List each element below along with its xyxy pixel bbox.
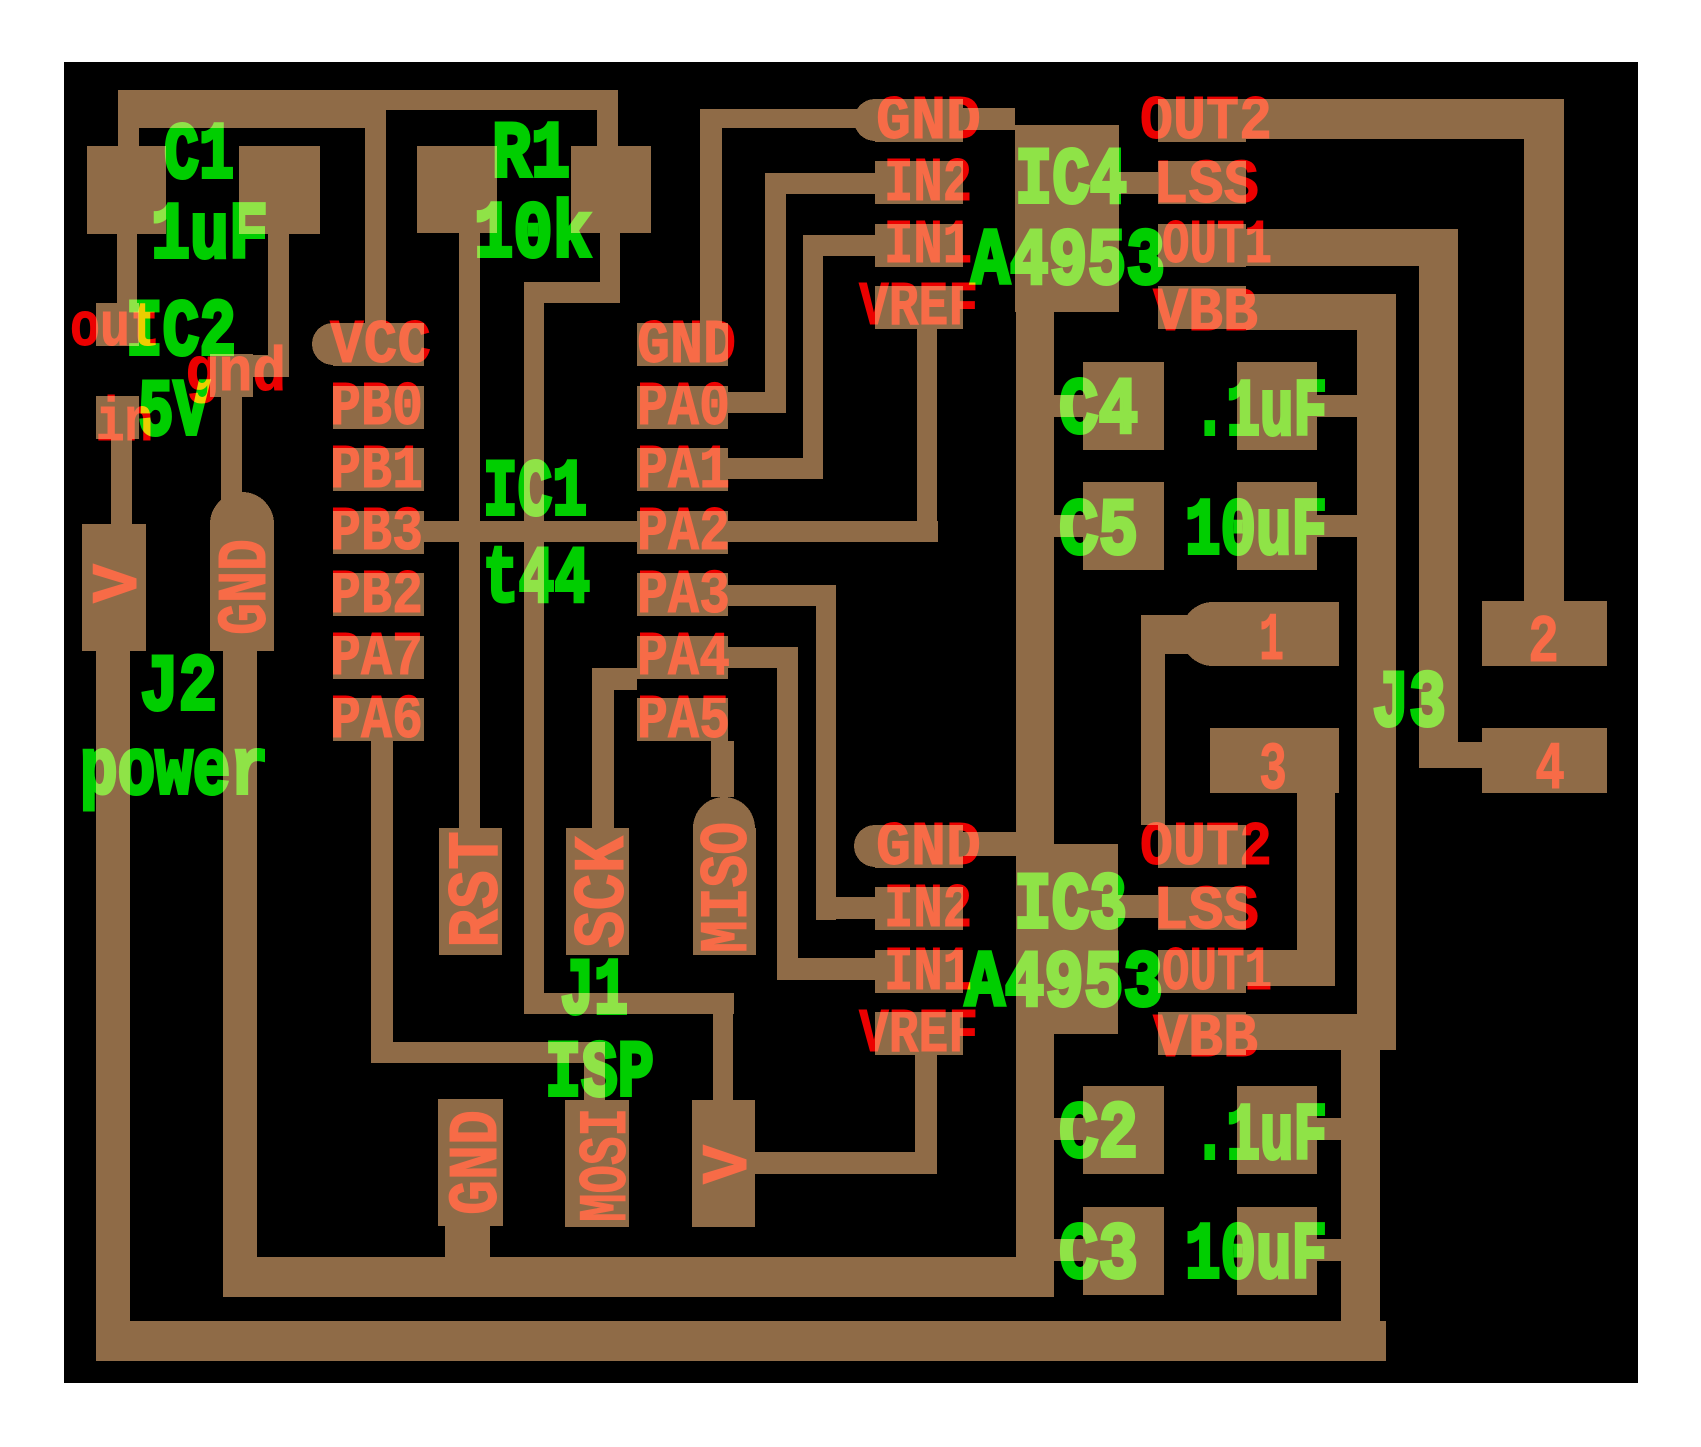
wire SCK vertical bbox=[592, 668, 614, 828]
IC4 pad OUT2 bbox=[1158, 99, 1246, 142]
svg-text:PA3: PA3 bbox=[637, 560, 730, 631]
wire C3 connector left bbox=[1053, 1239, 1083, 1261]
svg-text:C3: C3 bbox=[1059, 1211, 1138, 1302]
svg-text:VBB: VBB bbox=[1153, 1004, 1258, 1075]
wire IN1-PA1 vertical bbox=[803, 235, 823, 479]
IC4 pad OUT1 bbox=[1158, 224, 1246, 267]
regulator IC2 pad gnd bbox=[210, 354, 253, 397]
wire PA6 vertical bbox=[371, 741, 393, 1063]
IC1 pad PB3 bbox=[333, 511, 424, 554]
svg-text:IC1: IC1 bbox=[483, 448, 587, 539]
svg-text:VCC: VCC bbox=[330, 310, 431, 381]
wire R1 pad2 elbow vertical bbox=[600, 233, 620, 303]
resistor R1 pad 1 bbox=[417, 146, 497, 233]
svg-text:J1: J1 bbox=[560, 947, 628, 1038]
wire IC4 GND connector bbox=[963, 108, 1015, 130]
svg-text:R1: R1 bbox=[492, 110, 570, 201]
wire J2 V strip bbox=[96, 651, 130, 1361]
svg-text:OUT1: OUT1 bbox=[1162, 937, 1272, 1008]
wire IC4 IN2 horizontal bbox=[786, 173, 875, 194]
wire VCC drop to IC1 VCC pin bbox=[365, 128, 386, 323]
svg-text:VREF: VREF bbox=[859, 272, 978, 343]
wire IC4 OUT2 horizontal bbox=[1200, 99, 1564, 139]
svg-text:J2: J2 bbox=[140, 643, 217, 734]
IC3 pad VREF bbox=[875, 1012, 963, 1055]
wire C3 connector right bbox=[1317, 1239, 1341, 1261]
connector J3 pad 3 bbox=[1210, 728, 1339, 793]
wire C2 connector right bbox=[1317, 1118, 1341, 1140]
svg-text:C1: C1 bbox=[164, 111, 234, 202]
IC1 pad PB0 bbox=[333, 386, 424, 429]
svg-text:A4953: A4953 bbox=[971, 217, 1165, 308]
svg-text:MISO: MISO bbox=[690, 822, 767, 953]
wire R1 pad1 to PB3 to RST bbox=[459, 233, 480, 828]
IC1 pad GND bbox=[637, 323, 728, 366]
svg-text:VBB: VBB bbox=[1153, 278, 1258, 349]
svg-text:GND: GND bbox=[637, 310, 736, 381]
svg-text:OUT1: OUT1 bbox=[1162, 210, 1272, 281]
svg-text:PA6: PA6 bbox=[330, 685, 423, 756]
wire VCC drop to R1 pad2 bbox=[597, 110, 618, 146]
capacitor C5 pad 2 bbox=[1237, 482, 1317, 570]
wire J1 V to VREF horizontal bbox=[755, 1152, 937, 1174]
wire IC3 VREF vertical bbox=[915, 1055, 937, 1174]
svg-text:PA2: PA2 bbox=[637, 497, 730, 568]
IC1 pad PB1 bbox=[333, 448, 424, 491]
capacitor C4 pad 1 bbox=[1083, 362, 1164, 450]
IC1 pad PA2 bbox=[637, 511, 728, 554]
wire MOSI feed bbox=[584, 1042, 605, 1100]
svg-text:PA5: PA5 bbox=[637, 685, 730, 756]
IC3 pad GND round end (pin 1) bbox=[854, 825, 896, 867]
svg-text:PA0: PA0 bbox=[637, 372, 730, 443]
connector J2 pad GND bbox=[210, 524, 274, 651]
svg-text:J3: J3 bbox=[1372, 659, 1446, 750]
regulator IC2 pad in bbox=[96, 396, 139, 439]
IC1 pad PA5 bbox=[637, 698, 728, 741]
wire C1 pad2 elbow to IC2 gnd bbox=[230, 355, 289, 377]
svg-text:PB1: PB1 bbox=[330, 435, 423, 506]
svg-text:IN2: IN2 bbox=[884, 874, 972, 945]
wire IC3 IN2 horizontal bbox=[816, 897, 875, 919]
connector J3 pad 1 round end bbox=[1181, 602, 1245, 666]
IC3 pad IN2 bbox=[875, 887, 963, 930]
capacitor C5 pad 1 bbox=[1083, 482, 1164, 570]
connector J1 pad MISO round top bbox=[693, 797, 755, 859]
wire drop to J1 V pad bbox=[713, 993, 733, 1100]
wire VCC long vertical bbox=[524, 282, 544, 1014]
wire VCC to J1 V horizontal bbox=[524, 993, 734, 1014]
svg-text:PB2: PB2 bbox=[330, 560, 423, 631]
regulator IC2 pad out bbox=[96, 303, 139, 346]
wire C1 pad1 to IC2 out bbox=[117, 234, 137, 303]
wire IC4 VBB horizontal bbox=[1246, 294, 1396, 330]
wire VBB bottom border bbox=[96, 1321, 1386, 1361]
connector J1 pad SCK bbox=[566, 828, 629, 955]
svg-text:ISP: ISP bbox=[545, 1029, 654, 1120]
wire OUT1 to J3 pad4 vertical bbox=[1419, 229, 1458, 768]
connector J1 pad RST bbox=[439, 828, 502, 955]
wire PA1 horizontal bbox=[725, 458, 823, 479]
IC3 pad OUT1 bbox=[1158, 950, 1246, 993]
wire PB3-PA2-VREF horizontal bbox=[421, 521, 938, 542]
svg-text:3: 3 bbox=[1259, 732, 1287, 809]
svg-text:MOSI: MOSI bbox=[569, 1108, 646, 1222]
wire IC3 VBB horizontal bbox=[1246, 1014, 1396, 1050]
svg-text:PB3: PB3 bbox=[330, 497, 423, 568]
connector J2 pad GND round top bbox=[210, 492, 274, 556]
wire VCC top border horizontal bbox=[118, 90, 618, 110]
wire IC2 in to J2 V pad bbox=[111, 439, 132, 524]
svg-text:A4953: A4953 bbox=[965, 939, 1163, 1030]
svg-text:IC4: IC4 bbox=[1015, 136, 1127, 227]
wire PA4 horizontal right bbox=[725, 647, 798, 668]
svg-text:.1uF: .1uF bbox=[1193, 1092, 1327, 1183]
svg-text:1uF: 1uF bbox=[151, 191, 268, 282]
capacitor C4 pad 2 bbox=[1237, 362, 1317, 450]
IC1 pad PB2 bbox=[333, 573, 424, 616]
connector J1 pad MOSI bbox=[565, 1100, 629, 1227]
wire PA5 to MISO bbox=[711, 741, 734, 797]
svg-text:IN2: IN2 bbox=[884, 148, 972, 219]
svg-text:IC2: IC2 bbox=[126, 288, 236, 379]
svg-text:C5: C5 bbox=[1059, 487, 1138, 578]
IC1 pad VCC bbox=[333, 323, 424, 366]
svg-text:1: 1 bbox=[1259, 603, 1284, 680]
wire J1 GND stub bbox=[445, 1226, 490, 1257]
wire C4 connector left bbox=[1053, 395, 1083, 417]
IC3 pad IN1 bbox=[875, 950, 963, 993]
svg-text:C2: C2 bbox=[1059, 1090, 1138, 1181]
IC3 pad VBB bbox=[1158, 1012, 1246, 1055]
wire IC4 LSS connector bbox=[1119, 172, 1158, 194]
IC1 pad PA6 bbox=[333, 698, 424, 741]
connector J2 pad V bbox=[82, 524, 146, 651]
svg-text:C4: C4 bbox=[1059, 366, 1138, 457]
capacitor C1 pad 1 bbox=[87, 146, 166, 234]
resistor R1 pad 2 bbox=[571, 146, 651, 233]
IC1 pad PA0 bbox=[637, 386, 728, 429]
wire IC2 gnd to J2 GND pad bbox=[221, 397, 242, 505]
wire PA3 horizontal bbox=[725, 585, 836, 606]
svg-text:PA4: PA4 bbox=[637, 622, 730, 693]
svg-text:SCK: SCK bbox=[563, 835, 645, 948]
connector J3 pad 4 bbox=[1482, 728, 1607, 793]
wire GND middle strip bbox=[1016, 312, 1054, 1297]
svg-text:GND: GND bbox=[876, 86, 981, 157]
IC1 pad PA7 bbox=[333, 636, 424, 679]
svg-text:GND: GND bbox=[439, 1110, 518, 1215]
wire J3 pad1 feed bbox=[1141, 615, 1221, 654]
capacitor C1 pad 2 bbox=[239, 146, 320, 234]
IC4 pad LSS bbox=[1158, 161, 1246, 204]
svg-text:IN1: IN1 bbox=[884, 210, 972, 281]
connector J1 pad GND bbox=[438, 1099, 503, 1226]
svg-text:5V: 5V bbox=[138, 368, 209, 459]
wire IC3 GND connector bbox=[963, 832, 1016, 856]
svg-text:V: V bbox=[82, 564, 156, 603]
wire J3 pad4 elbow bbox=[1419, 742, 1482, 768]
IC4 pad VREF bbox=[875, 286, 963, 329]
IC3 pad OUT2 bbox=[1158, 825, 1246, 868]
wire IC4 VREF vertical bbox=[917, 326, 937, 542]
wire C1 pad2 down bbox=[268, 234, 289, 377]
svg-text:4: 4 bbox=[1535, 732, 1565, 809]
wire J3 pad1 to IC3 OUT2 vertical bbox=[1141, 615, 1165, 825]
wire IC3 IN1 horizontal bbox=[777, 958, 875, 980]
wire J2 GND strip bbox=[223, 651, 257, 1297]
IC1 pad PA3 bbox=[637, 573, 728, 616]
wire IC4 OUT1 horizontal bbox=[1200, 229, 1458, 266]
svg-text:10k: 10k bbox=[474, 190, 592, 281]
svg-text:t44: t44 bbox=[483, 535, 590, 626]
wire C2 connector left bbox=[1053, 1118, 1083, 1140]
svg-text:GND: GND bbox=[876, 812, 981, 883]
wire R1 pad2 elbow horizontal bbox=[524, 282, 620, 303]
wire PA3 to IC3 IN2 vertical bbox=[816, 585, 836, 920]
connector J3 pad 1 bbox=[1213, 602, 1339, 666]
svg-text:PA1: PA1 bbox=[637, 435, 730, 506]
capacitor C2 pad 1 bbox=[1083, 1086, 1164, 1174]
svg-text:RST: RST bbox=[437, 831, 519, 948]
svg-text:10uF: 10uF bbox=[1185, 1211, 1327, 1302]
connector J1 pad MISO bbox=[693, 828, 756, 955]
connector J3 pad 2 bbox=[1482, 601, 1607, 666]
IC4 pad GND bbox=[875, 99, 963, 142]
svg-text:power: power bbox=[80, 727, 268, 818]
svg-text:OUT2: OUT2 bbox=[1140, 86, 1272, 157]
IC3 pad LSS bbox=[1158, 887, 1246, 930]
IC3 thermal pad bbox=[1016, 844, 1118, 1034]
wire PA4 to SCK horizontal bbox=[592, 668, 637, 690]
svg-text:10uF: 10uF bbox=[1185, 487, 1327, 578]
IC4 pad IN2 bbox=[875, 161, 963, 204]
IC4 pad VBB bbox=[1158, 286, 1246, 329]
wire C5 connector right bbox=[1317, 515, 1357, 537]
wire PA0 horizontal bbox=[725, 392, 786, 413]
wire IC3 LSS connector bbox=[1116, 895, 1158, 918]
IC1 pad VCC round end (pin 1) bbox=[312, 323, 354, 365]
wire C5 connector left bbox=[1053, 515, 1083, 537]
capacitor C3 pad 2 bbox=[1237, 1207, 1317, 1295]
wire PA4 to IC3 IN1 vertical bbox=[777, 647, 798, 980]
svg-text:IN1: IN1 bbox=[884, 937, 972, 1008]
wire PA6 to MOSI horizontal bbox=[371, 1042, 605, 1063]
IC1 pad PA4 bbox=[637, 636, 728, 679]
wire VBB vertical lower bbox=[1341, 1014, 1380, 1361]
IC4 pad IN1 bbox=[875, 224, 963, 267]
IC4 pad GND round end (pin 1) bbox=[854, 99, 896, 141]
svg-text:OUT2: OUT2 bbox=[1140, 812, 1272, 883]
wire IC3 OUT1 horizontal bbox=[1246, 950, 1335, 986]
IC1 pad PA1 bbox=[637, 448, 728, 491]
svg-text:PA7: PA7 bbox=[330, 622, 423, 693]
svg-text:V: V bbox=[692, 1145, 766, 1184]
svg-text:GND: GND bbox=[208, 539, 287, 635]
wire VBB vertical upper bbox=[1357, 294, 1396, 1050]
connector J1 pad V bbox=[692, 1100, 755, 1227]
wire IC1 GND vertical bbox=[700, 109, 722, 323]
wire IC4 IN1 horizontal bbox=[823, 235, 875, 256]
capacitor C2 pad 2 bbox=[1237, 1086, 1317, 1174]
svg-text:VREF: VREF bbox=[859, 999, 978, 1070]
wire IN2-PA0 vertical bbox=[765, 173, 786, 413]
svg-text:PB0: PB0 bbox=[330, 372, 423, 443]
wire VCC drop to C1 pad1 bbox=[118, 90, 139, 146]
svg-text:2: 2 bbox=[1528, 605, 1559, 682]
wire GND bottom horizontal bbox=[223, 1257, 1054, 1297]
wire OUT2 to J3 pad2 vertical bbox=[1524, 99, 1564, 601]
svg-text:.1uF: .1uF bbox=[1193, 368, 1327, 459]
IC4 thermal pad bbox=[1015, 125, 1119, 312]
wire IC1 GND to IC4 GND horizontal bbox=[700, 109, 860, 128]
IC3 pad GND bbox=[875, 825, 963, 868]
wire C4 connector right bbox=[1317, 395, 1357, 417]
wire VCC inner horizontal bbox=[139, 110, 386, 128]
wire J3 pad3 to OUT1 vertical bbox=[1297, 793, 1335, 986]
capacitor C3 pad 1 bbox=[1083, 1207, 1164, 1295]
